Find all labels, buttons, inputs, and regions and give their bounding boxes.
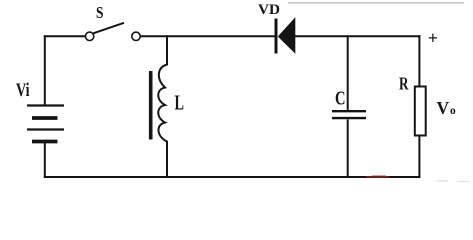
svg-text:+: +	[428, 28, 438, 48]
svg-text:C: C	[335, 87, 346, 109]
svg-text:L: L	[175, 91, 185, 115]
svg-text:VD: VD	[258, 2, 280, 18]
svg-text:Vi: Vi	[16, 80, 30, 101]
svg-text:Vo: Vo	[437, 98, 456, 118]
svg-text:R: R	[399, 74, 409, 94]
svg-text:S: S	[96, 3, 104, 22]
